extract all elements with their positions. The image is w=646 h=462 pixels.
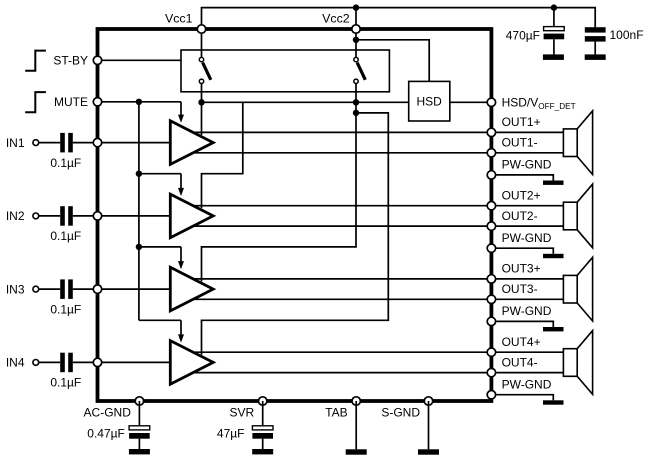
node junction SW2 line / amp4 feedback [353,110,359,116]
wire TAB pin to ground [355,401,357,449]
op-amp U3 (power amplifier 3) [170,267,213,311]
pin S-GND [424,397,432,405]
capacitor C5 470uF (electrolytic) [553,8,555,27]
speaker LS1 [563,129,577,157]
pin TAB [352,397,360,405]
capacitor C3 0.1uF [60,279,65,299]
pin IN4 [93,358,101,366]
pin PW-GND 2 [487,244,495,252]
svg-text:S-GND: S-GND [381,406,420,420]
svg-text:0.1µF: 0.1µF [50,302,81,316]
wire HSD output to pin [450,101,492,103]
svg-text:Vcc2: Vcc2 [322,12,350,26]
capacitor 0.47µF (electrolytic) [129,426,150,430]
pin PW-GND 4 [487,391,495,399]
op-amp U1 (power amplifier 1) [170,121,213,165]
svg-text:OUT3+: OUT3+ [502,262,541,276]
svg-text:AC-GND: AC-GND [84,406,132,420]
op-amp U2 (power amplifier 2) [170,194,213,238]
wire Vcc2 riser to top rail [355,8,357,29]
svg-text:OUT2-: OUT2- [502,209,538,223]
ground for AC-GND capacitor [129,449,150,454]
node junction SW2 line / HSD control [353,99,359,105]
wire mute bus branch to amp4 [139,319,181,321]
capacitor C6 100nF [585,27,606,32]
wire PW-GND 3 to ground [491,321,553,327]
node IN1 input terminal [33,140,39,146]
node junction mute bus branch 2 [136,171,142,177]
wire mute feed arrow into U4 [180,320,182,335]
node IN2 input terminal [33,213,39,219]
svg-text:Vcc1: Vcc1 [165,12,193,26]
wire OUT2- pin to speaker LS2 [491,225,563,227]
svg-text:PW-GND: PW-GND [502,231,552,245]
wire control line to HSD block [202,101,409,103]
wire IN1 input to amplifier U1 [98,142,171,144]
node IN3 input terminal [33,286,39,292]
wire mute feed arrow into U3 [180,247,182,262]
wire OUT4+ pin to speaker LS4 [491,351,563,353]
speaker LS4 [563,349,577,377]
wire ST-BY pin to switch block [98,59,182,61]
wire mute feed arrow into U1 [180,102,182,115]
IC boundary (device outline) [98,29,492,401]
pin MUTE [93,98,101,106]
wire mute distribution bus (vertical) [138,102,140,320]
node junction Vcc2 on top rail [353,4,359,10]
ground for SVR capacitor [252,449,273,454]
ground PW-GND 1 [543,181,564,185]
wire IN4 input to amplifier U4 [98,361,171,363]
svg-text:OUT1-: OUT1- [502,136,538,150]
node IN4 input terminal [33,360,39,366]
wire mute bus branch to amp2 [139,173,181,175]
op-amp U4 (power amplifier 4) [170,341,213,385]
wire capacitor to ground [262,439,264,449]
wire Vcc2 pin to switch SW2 [355,29,357,57]
node junction switch SW1 / HSD line [198,99,204,105]
ST-BY step waveform symbol [25,51,46,71]
wire OUT1- from U1 to pin [193,152,491,154]
capacitor C4 0.1uF [60,353,65,373]
capacitor C1 0.1uF [60,133,65,153]
pin IN1 [93,138,101,146]
wire Vcc supply rail (top) [202,8,596,29]
ground for 100nF [585,54,606,60]
svg-text:0.1µF: 0.1µF [50,156,81,170]
wire OUT2+ from U2 to pin [194,205,491,207]
wire SVR pin to capacitor [262,401,264,426]
ground PW-GND 2 [543,254,564,258]
wire MUTE pin to amp1 arrow [98,101,182,103]
node junction Vcc2/HSD tap [353,37,359,43]
pin OUT3+ [487,275,495,283]
pin OUT3- [487,295,495,303]
pin SVR [259,397,267,405]
HSD block U5 [409,81,450,121]
svg-text:470µF: 470µF [506,29,540,43]
ground for S-GND [418,449,439,454]
svg-text:OUT4-: OUT4- [502,356,538,370]
standby/mute switch block [181,50,389,92]
svg-text:IN2: IN2 [6,209,25,223]
wire IN1 terminal to capacitor C1 [39,142,60,144]
svg-text:SVR: SVR [230,406,255,420]
wire OUT1- pin to speaker LS1 [491,152,563,154]
wire OUT4- from U4 to pin [193,372,491,374]
node junction mute bus branch 3 [136,244,142,250]
pin OUT4- [487,368,495,376]
wire OUT3- pin to speaker LS3 [491,298,563,300]
svg-text:MUTE: MUTE [54,95,88,109]
wire IN4 terminal to capacitor C4 [39,361,60,363]
wire PW-GND 1 to ground [491,175,553,181]
wire capacitor to ground [138,439,140,449]
svg-text:OUT2+: OUT2+ [502,189,541,203]
wire PW-GND 4 to ground [491,395,553,401]
wire OUT3+ pin to speaker LS3 [491,278,563,280]
wire IN2 terminal to capacitor C2 [39,215,60,217]
wire S-GND pin to ground [428,401,430,449]
ground PW-GND 4 [543,400,564,404]
wire OUT4- pin to speaker LS4 [491,372,563,374]
wire capacitor C1 to IN1 pin [73,142,98,144]
wire OUT2- from U2 to pin [193,225,491,227]
wire capacitor C3 to IN3 pin [73,288,98,290]
wire 470uF to ground [553,39,555,54]
ground PW-GND 3 [543,327,564,331]
svg-text:PW-GND: PW-GND [502,304,552,318]
pin OUT4+ [487,348,495,356]
capacitor 47µF (electrolytic) [252,426,273,430]
wire amp4 feedback loop [202,113,389,355]
pin IN2 [93,212,101,220]
ground for TAB [346,449,367,454]
wire OUT1+ from U1 to pin [194,131,491,133]
wire capacitor C4 to IN4 pin [73,361,98,363]
svg-text:HSD/VOFF_DET: HSD/VOFF_DET [502,95,576,111]
wire IN2 input to amplifier U2 [98,215,171,217]
pin Vcc2 [352,25,360,33]
svg-text:HSD: HSD [417,95,443,109]
switch SW2 (mute) [354,57,358,61]
wire switch SW2 output down to amp3 feedback [202,84,357,282]
pin HSD/V_OFF_DET [487,98,495,106]
svg-text:OUT3-: OUT3- [502,282,538,296]
wire 100nF to ground [594,42,596,55]
pin OUT1- [487,149,495,157]
pin Vcc1 [197,25,205,33]
capacitor C2 0.1uF [60,206,65,226]
pin PW-GND 1 [487,171,495,179]
wire OUT3- from U3 to pin [193,298,491,300]
MUTE step waveform symbol [25,92,46,112]
svg-text:100nF: 100nF [610,28,644,42]
wire OUT4+ from U4 to pin [194,351,491,353]
svg-text:IN1: IN1 [6,136,25,150]
wire HSD supply tap [356,40,429,82]
pin OUT2+ [487,202,495,210]
pin ST-BY [93,56,101,64]
wire AC-GND pin to capacitor [138,401,140,426]
wire PW-GND 2 to ground [491,248,553,254]
wire IN3 input to amplifier U3 [98,288,171,290]
speaker LS2 [563,202,577,230]
pin OUT1+ [487,128,495,136]
svg-text:ST-BY: ST-BY [53,54,88,68]
svg-text:IN3: IN3 [6,282,25,296]
wire mute bus branch to amp3 [139,246,181,248]
pin AC-GND [135,397,143,405]
node junction 470uF cap on top rail [551,4,557,10]
switch SW1 (standby) [199,57,203,61]
node junction mute bus / MUTE line [136,99,142,105]
pin OUT2- [487,222,495,230]
speaker LS3 [563,275,577,303]
svg-text:IN4: IN4 [6,356,25,370]
pin IN3 [93,285,101,293]
wire OUT3+ from U3 to pin [194,278,491,280]
svg-text:0.47µF: 0.47µF [87,427,125,441]
svg-text:PW-GND: PW-GND [502,378,552,392]
pin PW-GND 3 [487,317,495,325]
wire mute feed arrow into U2 [180,174,182,189]
svg-text:47µF: 47µF [217,427,245,441]
svg-text:OUT1+: OUT1+ [502,115,541,129]
wire IN3 terminal to capacitor C3 [39,288,60,290]
svg-text:0.1µF: 0.1µF [50,229,81,243]
svg-text:0.1µF: 0.1µF [50,376,81,390]
wire OUT1+ pin to speaker LS1 [491,131,563,133]
wire Vcc1 pin to switch SW1 [201,29,203,57]
svg-text:TAB: TAB [325,406,347,420]
svg-text:OUT4+: OUT4+ [502,335,541,349]
svg-text:PW-GND: PW-GND [502,158,552,172]
ground for 470uF [543,54,564,60]
wire amp2 feedback loop [202,102,243,208]
wire switch SW1 output down to feedback node [201,84,203,135]
wire capacitor C2 to IN2 pin [73,215,98,217]
wire OUT2+ pin to speaker LS2 [491,205,563,207]
